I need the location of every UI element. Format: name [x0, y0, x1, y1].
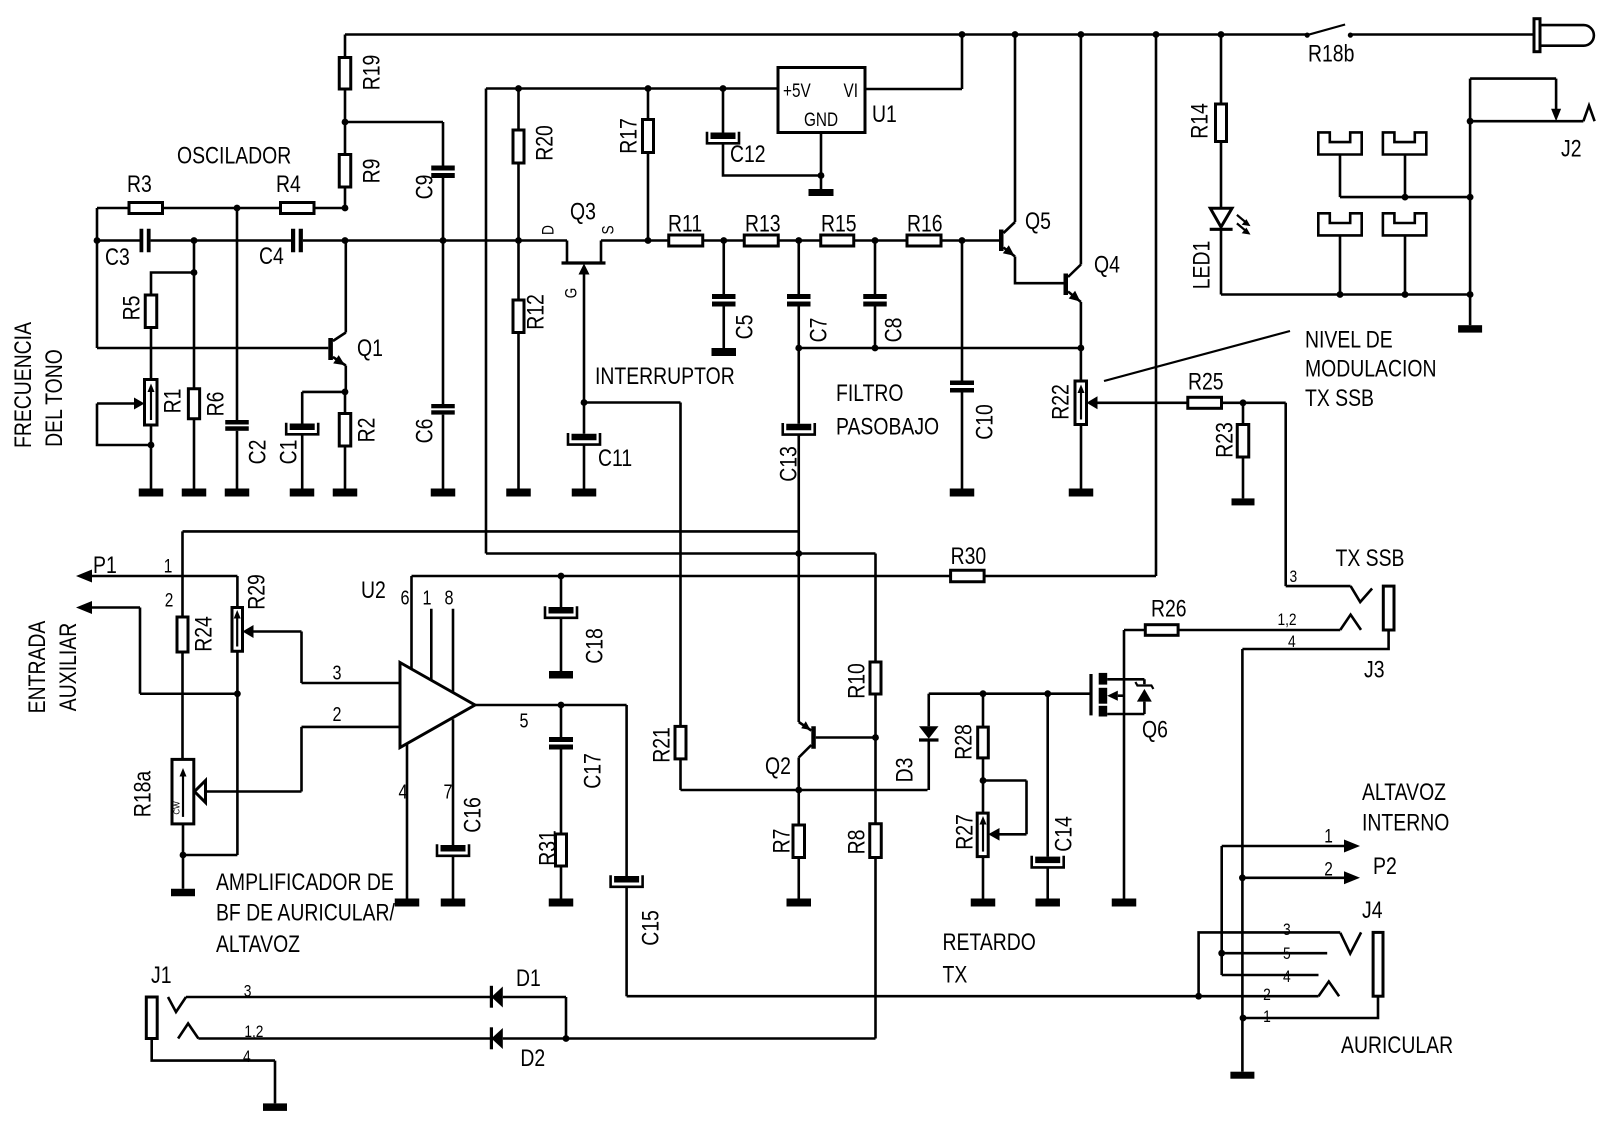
wire P2 pin1 — [1222, 846, 1346, 975]
diode D2 — [491, 1027, 545, 1072]
node C7 tap — [795, 237, 802, 244]
capacitor C2 — [225, 208, 271, 489]
svg-text:3: 3 — [244, 982, 252, 1001]
svg-text:8: 8 — [445, 588, 454, 610]
svg-text:6: 6 — [401, 588, 410, 610]
svg-text:C18: C18 — [582, 628, 609, 664]
connector J4 sleeve — [1373, 932, 1383, 996]
svg-text:2: 2 — [165, 591, 174, 612]
capacitor C16 — [437, 797, 487, 898]
resistor R8 — [844, 738, 882, 1039]
terminal clip2 — [1383, 132, 1426, 197]
node Q2 base — [872, 734, 879, 741]
connector J3 pin3 — [1286, 586, 1372, 602]
wire J1 pin3 — [186, 996, 491, 999]
label ALTAVOZ INTERNO — [1362, 779, 1449, 837]
svg-text:INTERRUPTOR: INTERRUPTOR — [595, 363, 735, 390]
svg-text:CW: CW — [173, 801, 182, 815]
wire C3 left — [94, 208, 140, 348]
svg-text:R14: R14 — [1187, 103, 1214, 139]
capacitor C14 — [1032, 694, 1078, 899]
node clip4-row2 — [1402, 291, 1409, 298]
terminal clip1 — [1318, 132, 1361, 197]
node R29 bottom — [234, 690, 241, 697]
svg-text:S: S — [599, 225, 618, 234]
svg-text:Q1: Q1 — [357, 335, 383, 362]
svg-text:ALTAVOZ: ALTAVOZ — [1362, 779, 1446, 806]
svg-text:TX: TX — [943, 962, 968, 989]
svg-text:3: 3 — [1290, 567, 1298, 586]
svg-text:D2: D2 — [520, 1045, 545, 1072]
resistor R24 — [177, 616, 218, 759]
svg-text:+5V: +5V — [783, 81, 811, 102]
svg-text:R11: R11 — [668, 211, 702, 238]
svg-text:C12: C12 — [730, 141, 766, 168]
wire R3 row — [97, 207, 345, 210]
svg-text:C7: C7 — [806, 318, 833, 343]
svg-text:P1: P1 — [93, 552, 117, 579]
potentiometer R1 — [145, 380, 187, 426]
capacitor C11 — [568, 403, 632, 489]
node P2 pin2 tap — [1239, 874, 1246, 881]
svg-text:LED1: LED1 — [1189, 241, 1216, 290]
resistor R14 — [1187, 35, 1227, 209]
wire U1 GND — [820, 133, 823, 190]
svg-text:Q5: Q5 — [1025, 208, 1051, 235]
node R19-R9 — [342, 119, 349, 126]
connector J1 tip contact — [168, 997, 186, 1012]
transistor Q2 — [765, 721, 876, 790]
arrow P1 pin1 — [76, 570, 237, 583]
capacitor C17 — [549, 705, 607, 834]
svg-text:1,2: 1,2 — [1277, 610, 1296, 629]
resistor R7 — [769, 790, 805, 899]
node Q2 emitter tap — [795, 550, 802, 557]
wire C3-C4 — [151, 239, 291, 242]
ground J2 — [1458, 325, 1482, 332]
arrow J2 plug — [1551, 109, 1561, 122]
wire +5V rail — [486, 87, 778, 90]
svg-text:RETARDO: RETARDO — [943, 929, 1036, 956]
capacitor C5 — [712, 241, 759, 349]
svg-text:C9: C9 — [412, 175, 439, 200]
ground C2 — [225, 489, 250, 497]
connector J4 ring contact — [1319, 982, 1340, 997]
wire Q2 emitter — [797, 554, 800, 723]
label J3 — [1277, 567, 1384, 684]
switch R18b — [1305, 25, 1353, 38]
node R16-C10 — [959, 237, 966, 244]
svg-text:R13: R13 — [745, 211, 781, 238]
ground C14 — [1035, 899, 1060, 907]
node J4 pin1-gnd — [1240, 1015, 1247, 1022]
wire J1 pin4 — [152, 1039, 275, 1104]
node Q4-R22 — [1078, 345, 1085, 352]
svg-text:J3: J3 — [1364, 657, 1385, 684]
label R18b — [1308, 41, 1354, 68]
wire headphone line — [627, 995, 1319, 998]
svg-text:C8: C8 — [881, 318, 908, 343]
ground R22 — [1069, 489, 1094, 497]
terminal clip3 — [1318, 213, 1361, 294]
arrow LED1 light2 — [1237, 223, 1251, 234]
wire P2 pin2 — [1242, 876, 1346, 879]
resistor R21 — [649, 726, 687, 790]
svg-text:D1: D1 — [516, 965, 541, 992]
capacitor C1 — [276, 392, 346, 489]
resistor R26 — [1124, 595, 1187, 635]
node C18 tap — [558, 573, 565, 580]
capacitor C10 — [950, 241, 999, 489]
svg-text:R21: R21 — [649, 727, 676, 763]
wiper R1 — [97, 398, 151, 446]
capacitor C8 — [863, 241, 907, 349]
ground C10 — [950, 489, 975, 497]
svg-text:Q6: Q6 — [1142, 717, 1168, 744]
svg-text:R5: R5 — [119, 296, 146, 321]
svg-text:FRECUENCIA: FRECUENCIA — [10, 322, 37, 448]
svg-text:C11: C11 — [598, 445, 632, 472]
resistor R9 — [339, 122, 385, 208]
connector J1 ring contact — [178, 1024, 198, 1039]
svg-text:VI: VI — [844, 81, 859, 102]
svg-text:R20: R20 — [532, 125, 559, 161]
node rail-Q4 — [1078, 31, 1085, 38]
wire pin6 bus — [412, 575, 951, 578]
svg-text:AUXILIAR: AUXILIAR — [55, 623, 82, 711]
svg-text:R12: R12 — [523, 294, 550, 330]
wire J1 pin12 — [198, 1037, 491, 1040]
svg-text:DEL TONO: DEL TONO — [41, 349, 68, 447]
node C11 top — [581, 399, 588, 406]
node C7-C13 — [795, 345, 802, 352]
svg-text:R28: R28 — [951, 724, 978, 760]
svg-text:J4: J4 — [1362, 897, 1383, 924]
resistor R2 — [339, 392, 380, 489]
svg-text:OSCILADOR: OSCILADOR — [177, 143, 291, 170]
node R28 top — [980, 690, 987, 697]
svg-text:NIVEL DE: NIVEL DE — [1305, 327, 1393, 354]
ground C18 — [549, 671, 573, 679]
wiper R29 — [243, 625, 254, 638]
node headphone line-J4 — [1195, 993, 1202, 1000]
label AMPLIFICADOR — [216, 869, 395, 958]
transistor Q5 — [999, 35, 1064, 284]
label AURICULAR — [1341, 1032, 1453, 1059]
svg-text:C2: C2 — [245, 440, 272, 465]
svg-text:Q4: Q4 — [1094, 252, 1120, 279]
svg-text:Q3: Q3 — [570, 199, 596, 226]
resistor R23 — [1212, 403, 1249, 499]
label J1 — [151, 962, 263, 1066]
resistor R4 — [276, 171, 314, 214]
svg-text:3: 3 — [1283, 920, 1291, 939]
ground C11 — [572, 489, 597, 497]
svg-text:AMPLIFICADOR DE: AMPLIFICADOR DE — [216, 869, 394, 896]
wire R26-J3 — [1178, 629, 1340, 632]
connector plug flange — [1534, 19, 1540, 52]
diode LED1 — [1189, 208, 1233, 294]
ground R31 — [549, 899, 574, 907]
wire R15-R16 — [854, 239, 907, 242]
svg-text:1: 1 — [1263, 1007, 1271, 1026]
wiper R22 — [1087, 396, 1188, 409]
connector J1 sleeve — [146, 997, 157, 1039]
potentiometer R22 — [1048, 348, 1087, 489]
ground R12 — [506, 489, 531, 497]
ground Q6 — [1112, 899, 1137, 907]
node row2-J2 — [1467, 291, 1474, 298]
resistor R16 — [907, 211, 943, 247]
svg-text:TX SSB: TX SSB — [1305, 385, 1374, 412]
label NIVEL DE MODULACION TX SSB — [1305, 327, 1437, 413]
ground R7 — [787, 899, 812, 907]
connector J3 sleeve — [1383, 586, 1394, 630]
svg-text:D3: D3 — [892, 758, 919, 783]
svg-text:4: 4 — [243, 1047, 251, 1066]
svg-text:R31: R31 — [535, 830, 562, 866]
svg-text:BF DE AURICULAR/: BF DE AURICULAR/ — [216, 900, 395, 927]
potentiometer R18a — [130, 759, 194, 824]
resistor R12 — [513, 241, 550, 489]
svg-text:AURICULAR: AURICULAR — [1341, 1032, 1453, 1059]
label TX SSB jack — [1336, 545, 1405, 572]
ground R2 — [333, 489, 358, 497]
svg-text:R25: R25 — [1188, 368, 1224, 395]
capacitor C4 — [259, 229, 303, 270]
svg-text:Q2: Q2 — [765, 753, 791, 780]
wire Q3 S — [601, 239, 669, 242]
svg-text:R8: R8 — [844, 830, 871, 855]
transistor Q3 — [539, 199, 618, 299]
capacitor C12 — [707, 89, 821, 176]
wire R16-Q5 — [941, 239, 999, 242]
svg-text:R4: R4 — [276, 171, 301, 198]
svg-text:C17: C17 — [580, 753, 607, 789]
wire U2 in3 — [254, 632, 401, 685]
wire top supply rail — [345, 33, 1534, 36]
svg-text:R22: R22 — [1048, 384, 1075, 420]
connector J2 contact — [1583, 106, 1594, 122]
svg-text:1: 1 — [423, 588, 432, 610]
wire gate line — [929, 692, 1091, 695]
capacitor C13 — [776, 348, 815, 554]
svg-text:R26: R26 — [1151, 595, 1187, 622]
node J4 pin5 tap — [1218, 950, 1225, 957]
label ENTRADA AUXILIAR — [24, 621, 82, 714]
svg-text:R30: R30 — [951, 543, 987, 570]
wire Q1 base line — [97, 347, 328, 350]
svg-text:R16: R16 — [907, 211, 943, 238]
svg-text:R19: R19 — [359, 55, 386, 91]
svg-text:P2: P2 — [1373, 853, 1397, 880]
svg-text:C3: C3 — [105, 244, 130, 271]
wire U2 out — [475, 705, 627, 733]
svg-text:3: 3 — [333, 663, 342, 685]
ground C16 — [441, 899, 466, 907]
ground C1 — [290, 489, 315, 497]
capacitor C6 — [412, 404, 455, 489]
node rail-Q5 — [1012, 31, 1019, 38]
ground R27 — [971, 899, 996, 907]
wire Q6 drain-source — [1123, 630, 1126, 899]
wire R25-J3 — [1222, 403, 1286, 586]
wire D2-R8 — [503, 1037, 876, 1040]
ground R6 — [182, 489, 207, 497]
wire R21-D3 bottom — [681, 789, 928, 792]
wire R1-ground — [150, 425, 153, 489]
svg-text:GND: GND — [804, 110, 838, 131]
resistor R13 — [744, 211, 780, 247]
node clip3-row2 — [1337, 291, 1344, 298]
resistor R5 — [119, 295, 157, 380]
svg-text:R3: R3 — [127, 171, 152, 198]
connector plug body — [1540, 25, 1594, 46]
node J2 tip — [1467, 118, 1474, 125]
svg-text:R17: R17 — [616, 118, 643, 154]
node R23 top — [1240, 399, 1247, 406]
svg-text:C16: C16 — [460, 797, 487, 833]
wire R18a bottom — [180, 824, 238, 889]
wire bus1 — [183, 530, 799, 533]
wire U2 pin7 — [444, 719, 454, 845]
arrow LED1 light1 — [1237, 215, 1251, 226]
label FRECUENCIA DEL TONO — [10, 322, 68, 448]
transistor Q1 — [328, 241, 383, 392]
wiper R18a — [195, 781, 206, 803]
node R20 top — [515, 85, 522, 92]
terminal clip4 — [1383, 213, 1426, 294]
svg-text:R10: R10 — [844, 663, 871, 699]
transistor Q4 — [1064, 35, 1120, 349]
wire U2 pin4 — [399, 744, 408, 899]
svg-text:ENTRADA: ENTRADA — [24, 621, 51, 714]
wire Q3 gate — [583, 275, 586, 403]
ground J4 — [1230, 1072, 1254, 1079]
node rail-R14 — [1218, 31, 1225, 38]
node C3-C4-R5 — [191, 237, 198, 244]
svg-text:MODULACION: MODULACION — [1305, 356, 1437, 383]
arrow P2 pin1 — [1344, 840, 1360, 853]
node clip2-row1 — [1402, 194, 1409, 201]
svg-text:1: 1 — [1324, 827, 1333, 848]
wire R5 branch — [151, 269, 197, 295]
node U1 GND — [818, 172, 825, 179]
svg-text:C13: C13 — [776, 446, 803, 482]
wiper R27 — [983, 781, 1027, 841]
wire bus2 — [486, 552, 876, 555]
ground R23 — [1232, 498, 1255, 505]
wire J2 top box — [1470, 79, 1556, 110]
capacitor C9 — [345, 122, 455, 404]
svg-text:1,2: 1,2 — [244, 1022, 263, 1041]
resistor R17 — [616, 89, 654, 241]
svg-text:C1: C1 — [276, 440, 303, 465]
svg-text:ALTAVOZ: ALTAVOZ — [216, 931, 300, 958]
svg-text:TX SSB: TX SSB — [1336, 545, 1405, 572]
svg-text:5: 5 — [520, 711, 529, 733]
node C9-C6 drain line — [440, 237, 447, 244]
wire R11-R13 — [703, 239, 745, 242]
svg-text:D: D — [539, 225, 558, 235]
svg-text:J2: J2 — [1561, 136, 1582, 163]
svg-text:5: 5 — [1283, 944, 1291, 963]
wire R13-R15 — [778, 239, 821, 242]
node C12 tap — [720, 85, 727, 92]
svg-text:C10: C10 — [972, 404, 999, 440]
svg-text:INTERNO: INTERNO — [1362, 810, 1449, 837]
label J4 — [1263, 897, 1382, 1026]
svg-text:R9: R9 — [359, 159, 386, 184]
resistor R10 — [844, 554, 882, 738]
node R28-R27 — [980, 777, 987, 784]
wire R30-rail — [984, 35, 1156, 577]
node R17 top — [645, 85, 652, 92]
capacitor C7 — [787, 241, 833, 349]
node C8 bottom — [872, 345, 879, 352]
wire R29 top — [236, 576, 239, 608]
node R1 bottom — [148, 442, 155, 449]
svg-text:R6: R6 — [203, 392, 230, 417]
resistor R31 — [535, 830, 567, 898]
wire U1 VI — [865, 35, 962, 90]
node Q2 collector — [795, 787, 802, 794]
wire bus1-R24 — [181, 531, 184, 617]
svg-text:2: 2 — [1324, 860, 1333, 881]
svg-text:R27: R27 — [952, 814, 979, 850]
svg-text:R1: R1 — [160, 389, 187, 414]
regulator U1 — [778, 68, 897, 133]
svg-text:FILTRO: FILTRO — [836, 380, 904, 407]
arrow P1 pin2 — [76, 601, 237, 694]
resistor R6 — [188, 241, 229, 489]
resistor R11 — [668, 211, 703, 247]
node row1-J2 — [1467, 194, 1474, 201]
node rail-R30 — [1153, 31, 1160, 38]
svg-text:2: 2 — [1263, 985, 1271, 1004]
node R20-R12 drain — [515, 237, 522, 244]
wire U2 pin6 — [401, 576, 412, 669]
wire J4 pin5 — [1222, 952, 1328, 955]
wire callout nivel — [1104, 331, 1290, 381]
node C14 top — [1044, 690, 1051, 697]
svg-text:C5: C5 — [732, 315, 759, 340]
resistor R30 — [951, 543, 987, 582]
wire J3 pin4 — [1242, 630, 1388, 1072]
svg-text:C15: C15 — [638, 910, 665, 946]
potentiometer R29 — [232, 574, 271, 651]
svg-text:R24: R24 — [191, 616, 218, 652]
svg-text:R2: R2 — [354, 418, 381, 443]
arrow P2 pin2 — [1344, 871, 1360, 884]
wire J2 contact line — [1470, 120, 1583, 123]
connector J3 ring contact — [1340, 615, 1361, 630]
ground R18a — [171, 889, 195, 897]
connector J4 tip contact — [1340, 932, 1361, 953]
svg-text:G: G — [562, 288, 581, 299]
svg-text:C14: C14 — [1051, 816, 1078, 852]
svg-text:4: 4 — [1283, 967, 1291, 986]
resistor R20 — [513, 89, 559, 241]
connector J4 box — [1199, 932, 1341, 996]
wire C4-Q1 — [303, 237, 349, 244]
svg-text:U2: U2 — [361, 577, 386, 604]
wire U2 pin8 — [445, 588, 454, 693]
wire D1-D2 — [503, 997, 566, 1039]
svg-text:R29: R29 — [244, 574, 271, 610]
node R4-R9-Q1 — [342, 205, 349, 212]
resistor R28 — [951, 694, 989, 781]
